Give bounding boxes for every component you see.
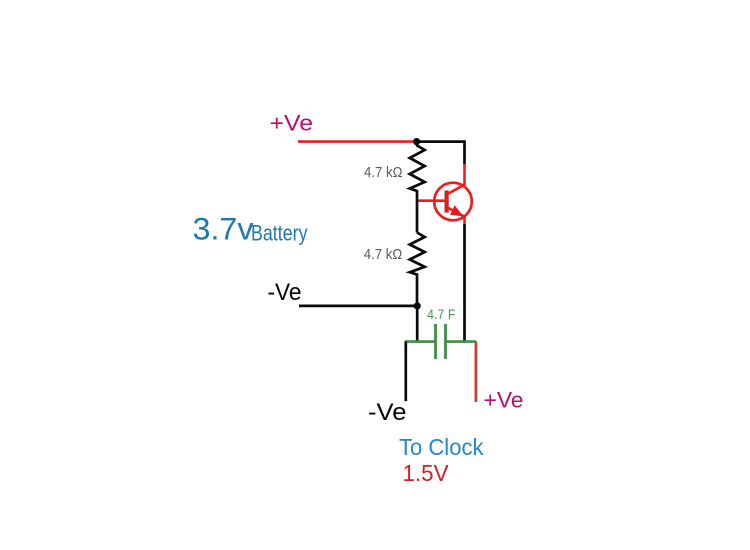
svg-text:+Ve: +Ve <box>484 388 524 413</box>
svg-text:-Ve: -Ve <box>368 399 407 426</box>
svg-text:Battery: Battery <box>251 220 308 245</box>
svg-text:4.7 F: 4.7 F <box>427 307 456 322</box>
svg-text:-Ve: -Ve <box>268 279 302 306</box>
svg-text:+Ve: +Ve <box>270 111 314 136</box>
svg-text:1.5V: 1.5V <box>403 460 450 486</box>
svg-text:To Clock: To Clock <box>399 434 484 460</box>
svg-text:4.7 kΩ: 4.7 kΩ <box>364 247 403 263</box>
svg-text:3.7v: 3.7v <box>193 211 254 247</box>
svg-text:4.7 kΩ: 4.7 kΩ <box>364 165 403 181</box>
